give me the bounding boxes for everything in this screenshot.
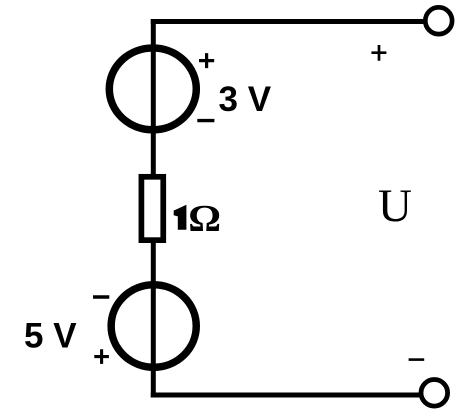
wire: left vertical through 3V source down to resistor <box>151 19 156 180</box>
voltage source V2 (5 V) <box>111 285 196 368</box>
polarity + of V1 <box>199 53 214 68</box>
value label 1Ω <box>174 197 221 239</box>
polarity - of V2 <box>93 295 109 298</box>
wire: vertical from resistor through 5V source to bottom rail <box>151 238 156 398</box>
polarity + of output U <box>371 45 386 61</box>
wire: bottom horizontal rail to - terminal <box>151 393 421 398</box>
svg-text:3 V: 3 V <box>219 80 272 119</box>
wire: top horizontal from source branch to + terminal <box>151 19 425 24</box>
resistor R1 <box>141 177 163 240</box>
svg-text:5 V: 5 V <box>24 316 77 355</box>
terminal node + (top right, open circle) <box>425 7 452 34</box>
svg-text:U: U <box>378 180 412 232</box>
polarity + of V2 <box>94 349 109 364</box>
polarity - of output U <box>409 358 425 361</box>
polarity - of V1 <box>197 119 214 122</box>
voltage source V1 (3 V) <box>109 48 196 130</box>
svg-text:Ω: Ω <box>188 197 221 239</box>
terminal node - (bottom right, open circle) <box>421 380 448 407</box>
